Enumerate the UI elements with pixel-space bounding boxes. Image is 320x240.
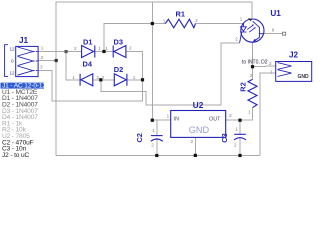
svg-text:1: 1: [248, 109, 251, 114]
wire D4 anode to D2 anode (bridge minus node): [93, 79, 115, 81]
wire U2 OUT to +5V node: [226, 108, 253, 121]
wire unregulated DC rail x=152: [151, 2, 153, 120]
diode D4: [81, 74, 93, 86]
wire R1 pin2 to U1 pin1: [196, 23, 244, 25]
svg-text:GND: GND: [189, 125, 210, 135]
svg-text:2: 2: [129, 46, 132, 51]
node J1 pin1 / D4 junction: [64, 50, 67, 53]
svg-text:2: 2: [41, 55, 44, 60]
wire bridge minus to U1 LED cathode: [101, 43, 240, 105]
node R1/bridge+ junction: [151, 22, 154, 25]
svg-text:2: 2: [269, 61, 272, 66]
svg-text:GND: GND: [298, 74, 310, 80]
optocoupler U1 light coupling arrows: [247, 25, 256, 33]
regulator U2 box: [171, 111, 226, 138]
node INT0 junction: [251, 65, 254, 68]
svg-text:U1: U1: [270, 9, 281, 18]
wire D1 cathode to bridge+ node: [95, 51, 113, 53]
resistor R2: [248, 79, 257, 107]
node bridge minus: [99, 78, 102, 81]
U1 collector junction arrow: [248, 18, 252, 21]
capacitor C2: [151, 135, 163, 137]
connector J1: [5, 45, 39, 77]
wire ground bottom rail: [56, 155, 260, 157]
svg-text:1: 1: [152, 128, 155, 133]
wire C2 bottom lead: [156, 139, 158, 156]
svg-text:1: 1: [240, 17, 243, 22]
svg-text:6: 6: [272, 28, 275, 33]
svg-text:1: 1: [72, 75, 75, 80]
svg-text:D4: D4: [83, 59, 93, 68]
svg-text:1: 1: [98, 46, 101, 51]
wire U1 pin6 stub: [264, 33, 283, 35]
wire J1 pin1 to D1 anode: [39, 51, 82, 53]
wire U2 GND pin to ground rail: [194, 137, 196, 155]
resistor R1: [165, 19, 195, 28]
svg-text:C2: C2: [135, 133, 144, 142]
optocoupler U1 body: [241, 19, 264, 42]
svg-text:1: 1: [163, 18, 166, 23]
svg-text:2: 2: [191, 139, 194, 144]
component list selection highlight: [1, 83, 45, 89]
wire U1 emitter to INT0 node: [252, 42, 254, 66]
node U2 IN junction: [151, 119, 154, 122]
svg-text:2: 2: [195, 18, 198, 23]
svg-text:1: 1: [235, 127, 238, 132]
wire D3 anode to AC2 node: [126, 52, 143, 80]
diode D3: [114, 46, 126, 58]
node J1 pin2 / center tap junction: [55, 59, 58, 62]
wire D2 cathode to AC2 node: [127, 79, 143, 81]
node U2 GND / ground rail junction: [194, 154, 197, 157]
optocoupler U1 phototransistor: [253, 21, 264, 42]
svg-text:12: 12: [10, 71, 16, 76]
diode D2: [114, 74, 126, 86]
capacitor C3: [234, 133, 246, 135]
wire J2 pin1 to ground rail: [260, 73, 276, 155]
svg-text:C3: C3: [220, 133, 229, 142]
wire R2 top lead: [252, 67, 254, 80]
wire C2 top lead: [156, 120, 158, 135]
svg-text:R1: R1: [176, 9, 185, 18]
svg-text:D3: D3: [114, 38, 123, 47]
svg-text:3: 3: [229, 113, 232, 118]
svg-text:OUT: OUT: [209, 117, 221, 123]
svg-text:J2 - to uC: J2 - to uC: [2, 152, 29, 159]
U1 pin6 open square terminal: [283, 32, 286, 35]
svg-text:J2: J2: [289, 50, 299, 59]
wire J1 pin1 branch to D4 cathode: [66, 52, 80, 80]
svg-text:3: 3: [40, 65, 43, 70]
node C2 / ground rail junction: [155, 154, 158, 157]
wire C3 top lead: [239, 120, 241, 134]
svg-text:to INT0, D2: to INT0, D2: [242, 59, 268, 65]
svg-text:1: 1: [133, 75, 136, 80]
wire J1 pin3 to AC2 node: [38, 71, 142, 101]
svg-text:1: 1: [41, 45, 44, 50]
svg-text:1: 1: [167, 113, 170, 118]
svg-text:12: 12: [10, 47, 16, 52]
svg-text:2: 2: [234, 142, 237, 147]
wire bridge+ riser to R1 node: [104, 24, 152, 52]
svg-text:0: 0: [11, 58, 14, 63]
svg-text:U2: U2: [193, 101, 204, 110]
node AC2: [141, 78, 144, 81]
optocoupler U1 internal LED: [240, 24, 247, 43]
wire center-tap vertical to ground rail: [55, 61, 57, 156]
svg-text:IN: IN: [174, 117, 179, 123]
wire R1 node to R1 pin1: [152, 23, 165, 25]
svg-text:D2: D2: [114, 65, 123, 74]
node bridge+: [102, 50, 105, 53]
svg-text:2: 2: [74, 46, 77, 51]
svg-text:R2: R2: [239, 82, 248, 91]
wire INT0 node to J2 pin2: [253, 65, 276, 68]
wire C3 bottom lead: [239, 138, 241, 156]
connector J2: [276, 62, 312, 82]
svg-text:1: 1: [105, 46, 108, 51]
wire J1 pin2 stub: [38, 60, 56, 62]
svg-text:1: 1: [270, 69, 273, 74]
svg-text:2: 2: [102, 75, 105, 80]
svg-text:2: 2: [96, 75, 99, 80]
svg-text:2: 2: [235, 37, 238, 42]
svg-text:2: 2: [250, 73, 253, 78]
svg-text:2: 2: [151, 143, 154, 148]
wire top rail (center-tap net): [56, 2, 252, 61]
node U2 OUT / C3 junction: [238, 119, 241, 122]
diode D1: [82, 46, 94, 58]
svg-text:J1: J1: [19, 36, 29, 45]
svg-text:D1: D1: [83, 38, 92, 47]
node C3 / ground rail junction: [238, 154, 241, 157]
wire U2 IN to unregulated node: [152, 119, 170, 121]
